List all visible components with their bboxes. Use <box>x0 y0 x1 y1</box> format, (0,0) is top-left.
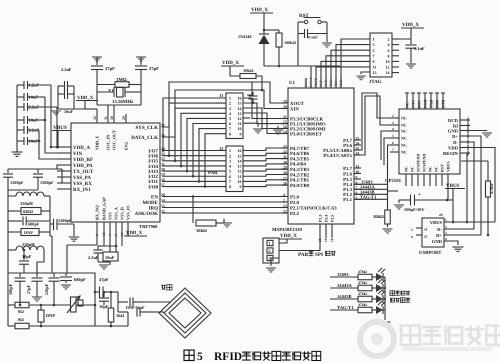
svg-text:VDD_A: VDD_A <box>73 145 90 151</box>
svg-text:10kΩ: 10kΩ <box>373 214 384 219</box>
svg-text:820Ω: 820Ω <box>23 209 33 214</box>
ground (JTAG cap) <box>406 64 416 68</box>
wire VDD to VBUS rail <box>470 148 495 223</box>
svg-text:1200pF: 1200pF <box>58 218 72 223</box>
capacitor 10uF (bank) <box>17 119 24 121</box>
capacitor 2.2nF (bank) <box>17 106 24 108</box>
ground (RST) <box>322 43 332 47</box>
inductor 150uH <box>8 190 16 196</box>
svg-text:NC: NC <box>401 129 407 134</box>
watermark text <box>401 326 420 345</box>
wire row 305 <box>8 304 15 306</box>
wire JTAG staircase to MCU <box>341 39 370 85</box>
svg-text:DVSS: DVSS <box>304 78 308 87</box>
ground (VSS caps) <box>97 258 99 262</box>
svg-text:TDO: TDO <box>339 79 343 87</box>
CP2101 left pins NC <box>390 117 399 119</box>
capacitor 10uF (VSS, box) <box>103 252 118 261</box>
wire D+ to USB <box>444 136 481 235</box>
svg-text:RST: RST <box>439 164 444 172</box>
resistor 1k (antenna) <box>110 292 112 308</box>
connector USBPORT <box>422 218 444 247</box>
capacitor 27pF (filter) <box>36 273 38 277</box>
wire LED 14443A cathode <box>383 287 385 289</box>
net label TAG-T1 (MSP) <box>354 198 388 200</box>
watermark logo circle <box>360 322 394 356</box>
svg-text:10uF: 10uF <box>64 109 74 114</box>
svg-text:13: 13 <box>373 70 377 75</box>
capacitor 1500pF A <box>7 169 9 173</box>
svg-text:JTAG: JTAG <box>369 79 382 85</box>
capacitor 0.1uF (RST) <box>298 33 305 35</box>
svg-text:19: 19 <box>324 238 328 242</box>
svg-text:DTR: DTR <box>441 99 446 108</box>
svg-text:10kΩ: 10kΩ <box>243 68 254 73</box>
svg-text:NC: NC <box>405 102 410 108</box>
capacitor 1.2uF (bank) <box>17 84 24 86</box>
svg-text:29: 29 <box>122 116 126 120</box>
svg-text:7: 7 <box>373 53 375 58</box>
svg-text:11: 11 <box>373 65 377 70</box>
svg-text:P4.7/TB7: P4.7/TB7 <box>290 146 310 152</box>
wire routing corner A <box>247 82 252 95</box>
resistor 470 (TAG-T1) <box>358 307 372 313</box>
svg-text:P1.0: P1.0 <box>290 194 300 200</box>
wire LED common cathode rail <box>384 277 386 318</box>
svg-text:14443A: 14443A <box>337 283 352 288</box>
svg-text:XIN: XIN <box>290 106 299 112</box>
svg-text:s1: s1 <box>424 228 427 232</box>
svg-text:TAG-T1: TAG-T1 <box>360 195 377 200</box>
svg-text:6: 6 <box>392 141 394 145</box>
svg-text:32: 32 <box>93 116 97 120</box>
ground (USBPORT) <box>453 247 464 251</box>
wire VBUS to VDD_A <box>57 131 59 148</box>
wire UART TXD to MSP430 <box>354 96 390 155</box>
svg-text:NC: NC <box>401 136 407 141</box>
svg-text:I/O4: I/O4 <box>148 164 158 170</box>
wire UART RXD to MSP430 <box>354 93 390 150</box>
svg-text:P4.3/TB3: P4.3/TB3 <box>290 167 310 173</box>
capacitor 27pF B <box>140 57 142 65</box>
svg-text:26: 26 <box>439 213 443 217</box>
wire trimmer to 47pF node <box>76 304 95 306</box>
svg-text:0.1uF: 0.1uF <box>308 35 318 40</box>
resistor 10k EN pulldown <box>192 197 194 224</box>
svg-text:RST: RST <box>319 80 323 87</box>
svg-text:XOUT: XOUT <box>290 101 305 107</box>
capacitor 2.2uF (bank) <box>17 129 24 131</box>
svg-text:27pF: 27pF <box>149 66 159 71</box>
wire 27pF A rail <box>96 70 98 106</box>
svg-text:VDD_X: VDD_X <box>402 22 419 28</box>
resistor 0ohm B <box>15 323 29 329</box>
svg-text:5: 5 <box>373 48 375 53</box>
CP2101 bottom pins <box>405 174 407 186</box>
capacitor 1200pF <box>50 223 53 225</box>
svg-text:I/O7: I/O7 <box>148 148 158 154</box>
svg-text:2: 2 <box>269 248 271 253</box>
figure caption <box>184 350 194 360</box>
svg-text:27pF: 27pF <box>26 284 31 294</box>
svg-text:2.2uF: 2.2uF <box>88 255 99 260</box>
svg-text:1kΩ: 1kΩ <box>116 313 125 318</box>
svg-text:5: 5 <box>197 351 203 363</box>
svg-text:MSP430F2330: MSP430F2330 <box>272 227 302 233</box>
wire VSS pins to bypass caps <box>104 232 116 246</box>
svg-text:470Ω: 470Ω <box>358 270 367 274</box>
svg-text:VBUS: VBUS <box>430 220 443 225</box>
svg-text:1: 1 <box>269 241 271 246</box>
ground (100uF) <box>398 200 400 203</box>
svg-text:VSS_IO: VSS_IO <box>126 205 131 220</box>
svg-text:DSR: DSR <box>435 100 440 108</box>
wire EN row <box>162 196 288 198</box>
svg-text:P3.4/UCA0Tx: P3.4/UCA0Tx <box>323 153 352 159</box>
svg-text:680pF: 680pF <box>74 277 86 282</box>
svg-text:2: 2 <box>445 225 447 229</box>
svg-text:4.7kΩ: 4.7kΩ <box>489 183 494 194</box>
wire DATA_CLK routed over J1 <box>162 90 288 137</box>
svg-text:P4.5/TB5: P4.5/TB5 <box>290 156 310 162</box>
svg-text:0.1uF: 0.1uF <box>414 46 425 51</box>
svg-text:47pF: 47pF <box>99 277 109 282</box>
svg-text:GND: GND <box>448 128 459 133</box>
svg-text:VDD_PA: VDD_PA <box>73 163 93 169</box>
svg-text:MODE: MODE <box>142 200 158 206</box>
wire JTAG pin 4 stub <box>392 44 399 46</box>
svg-text:USBPORT: USBPORT <box>419 250 442 256</box>
svg-text:I/O1: I/O1 <box>148 179 158 185</box>
wire CP2101 left pin to net bus <box>381 131 390 160</box>
wire routing corner B <box>255 69 257 71</box>
svg-text:100pF: 100pF <box>8 283 13 295</box>
svg-text:1N4148: 1N4148 <box>238 34 252 39</box>
resistor 470 (14443A) <box>358 285 372 291</box>
svg-text:TXD: TXD <box>429 99 434 108</box>
svg-text:8: 8 <box>229 131 231 136</box>
svg-text:P1.5: P1.5 <box>343 177 353 183</box>
IC TRF7960 RFID analog front end <box>71 123 160 222</box>
wire 1500pF bottom join <box>8 189 38 191</box>
net label 14443B (LED) <box>330 298 358 300</box>
svg-text:TDI: TDI <box>334 80 338 87</box>
svg-text:5: 5 <box>392 134 394 138</box>
svg-text:VSS_A: VSS_A <box>114 207 119 220</box>
svg-text:4: 4 <box>392 127 394 131</box>
svg-text:CTS: CTS <box>411 99 416 108</box>
svg-text:P2.0: P2.0 <box>290 200 300 206</box>
svg-text:470Ω: 470Ω <box>358 292 367 296</box>
resistor 4.7k (VBUS) <box>487 161 489 181</box>
wire I/O4 row to J2 <box>162 165 226 167</box>
svg-text:DCD: DCD <box>448 118 459 123</box>
svg-text:VDD_X: VDD_X <box>222 60 239 66</box>
svg-text:TRF7960: TRF7960 <box>139 224 158 229</box>
svg-text:VDD_X: VDD_X <box>251 7 268 13</box>
resistor 10k (net pull) <box>385 210 391 224</box>
wire verticals into bottom filter <box>7 272 9 274</box>
svg-text:31: 31 <box>104 116 108 120</box>
svg-text:NC: NC <box>401 123 407 128</box>
svg-text:P3.3/UCB0CLK: P3.3/UCB0CLK <box>290 116 323 122</box>
capacitor 10uF (bank) <box>17 96 24 98</box>
wire JTAG pin13 to ground <box>361 72 370 74</box>
wire VBUS label stem <box>452 188 454 200</box>
wire TX_OUT to matching network <box>57 165 62 169</box>
wire I/O7 row to J2 <box>162 150 226 152</box>
left decoupling capacitor bank rail <box>16 85 18 152</box>
ground (27pF filter) <box>32 297 42 301</box>
svg-text:TAG-T1: TAG-T1 <box>337 305 354 310</box>
svg-text:P1.7: P1.7 <box>343 166 353 172</box>
svg-text:+: + <box>418 193 421 198</box>
wire antenna feed lines <box>117 292 119 312</box>
svg-text:RX_IN1: RX_IN1 <box>73 187 91 193</box>
wire bottom filter top bus <box>8 272 95 274</box>
watermark subtext <box>402 347 492 351</box>
wire MODE row <box>162 201 288 203</box>
svg-text:10kΩ: 10kΩ <box>196 228 207 233</box>
svg-text:18: 18 <box>330 238 334 242</box>
wire VSS_IO to VDD_X <box>127 231 129 233</box>
svg-text:VDD_RF: VDD_RF <box>73 157 93 163</box>
svg-text:9: 9 <box>373 59 375 64</box>
wire LED TAG-T1 cathode <box>383 309 385 311</box>
svg-text:P3.0/UCB0SET: P3.0/UCB0SET <box>290 131 323 137</box>
capacitor 10uF (top) <box>58 93 65 95</box>
svg-text:14443B: 14443B <box>337 294 352 299</box>
header JTAG (2x7) <box>370 33 392 77</box>
wire SEL pin1 to VDD_X <box>279 239 287 243</box>
wire right rail (analog) <box>49 196 51 236</box>
svg-text:5: 5 <box>411 228 413 232</box>
svg-text:6: 6 <box>411 235 413 239</box>
svg-text:2: 2 <box>388 37 390 42</box>
LED 14443B <box>376 295 383 303</box>
wire right rail x95 <box>94 283 96 326</box>
ground (27pF cap A) <box>92 57 102 61</box>
wire RST bus <box>264 65 340 67</box>
net label 14443A (LED) <box>330 287 358 289</box>
svg-text:220pF: 220pF <box>44 283 49 295</box>
wire JTAG pin 14 stub <box>392 72 399 74</box>
svg-text:DNP: DNP <box>24 230 33 235</box>
svg-text:2: 2 <box>392 114 394 118</box>
svg-text:PAR: PAR <box>208 170 218 176</box>
capacitor 220pF (filter) <box>53 273 55 277</box>
svg-text:RFID: RFID <box>214 351 242 363</box>
svg-text:SUSPEND: SUSPEND <box>421 154 426 172</box>
svg-text:P2.4: P2.4 <box>323 215 328 222</box>
svg-text:GND: GND <box>432 239 443 244</box>
svg-text:P4.1/TB1: P4.1/TB1 <box>290 178 310 184</box>
svg-text:VDD: VDD <box>448 145 459 150</box>
svg-text:100kΩ: 100kΩ <box>284 40 297 45</box>
wire J1 right pins to MSP430 P3.x <box>243 98 288 119</box>
ground (JTAG pin13) <box>356 76 365 80</box>
svg-text:TX_OUT: TX_OUT <box>73 169 94 175</box>
svg-text:100μF/16V: 100μF/16V <box>404 207 425 212</box>
svg-text:EN: EN <box>151 194 158 200</box>
wire VDD_X stem (J1 pullup) <box>230 66 240 76</box>
svg-text:ASK/OOK: ASK/OOK <box>135 211 158 217</box>
svg-text:1: 1 <box>373 37 375 42</box>
svg-text:4: 4 <box>388 42 390 47</box>
svg-text:10: 10 <box>386 59 390 64</box>
wire J1 pin 12 stub <box>243 117 250 119</box>
svg-text:P1.6: P1.6 <box>343 171 353 177</box>
net label 14443B (MSP) <box>354 193 388 195</box>
svg-text:VBUS: VBUS <box>445 161 450 172</box>
wire J1 pin 13 to ground <box>243 123 258 127</box>
svg-text:0Ω: 0Ω <box>18 317 24 322</box>
svg-text:I/O6: I/O6 <box>148 153 158 159</box>
svg-text:NC: NC <box>403 166 408 172</box>
svg-text:30: 30 <box>110 116 114 120</box>
svg-text:OSC_OUT: OSC_OUT <box>112 130 117 150</box>
wire REGIN down <box>467 153 470 222</box>
svg-text:TMS: TMS <box>329 80 333 87</box>
svg-text:VDD_X: VDD_X <box>280 233 297 239</box>
wire RST button left <box>298 21 304 23</box>
svg-text:P2.3: P2.3 <box>317 215 322 222</box>
resistor 820ohm <box>8 210 21 212</box>
svg-text:470Ω: 470Ω <box>358 281 367 285</box>
svg-text:I/O0: I/O0 <box>148 184 158 190</box>
wire bus to OSC_OUT <box>113 105 115 123</box>
header SEL (PAR/SPI select) <box>263 238 279 263</box>
wire RST bus to MCU <box>310 66 312 78</box>
svg-text:SUSPEND: SUSPEND <box>415 154 420 172</box>
wire net bus down to 10k <box>388 190 399 192</box>
svg-text:680pF: 680pF <box>28 222 40 227</box>
wires cap bank to TRF7960 supply pins <box>34 84 51 86</box>
svg-text:TEST: TEST <box>314 78 318 87</box>
svg-text:1: 1 <box>445 218 447 222</box>
ground (CP2101) <box>486 130 488 133</box>
capacitor 27pF A <box>96 57 98 65</box>
svg-text:4: 4 <box>445 237 447 241</box>
wire crystal bottom bus <box>97 104 141 106</box>
resistor DNP (shunt) <box>8 231 21 233</box>
svg-text:SPI: SPI <box>315 252 323 258</box>
svg-text:BAND_GAP: BAND_GAP <box>102 197 107 220</box>
svg-text:8: 8 <box>388 53 390 58</box>
wire JTAG pin 12 stub <box>392 66 399 68</box>
ground (SEL) <box>266 268 276 272</box>
svg-text:VSS_PA: VSS_PA <box>73 175 91 181</box>
wire EN2 stub <box>125 114 127 123</box>
svg-text:RST: RST <box>299 13 309 19</box>
net label 14443A (MSP) <box>354 188 388 190</box>
wire CP2101 GND to ground <box>470 130 487 132</box>
wire JTAG pin2 to VDD_X <box>392 38 411 40</box>
capacitor 0.1uF (JTAG) <box>406 44 417 46</box>
antenna label 天线 <box>161 285 166 290</box>
svg-text:15693: 15693 <box>337 272 349 277</box>
wire JTAG pin 6 stub <box>392 49 399 51</box>
wire top bus of 1500pF caps <box>8 168 62 170</box>
svg-text:P2.2: P2.2 <box>290 211 300 217</box>
wire RST button right <box>321 21 327 23</box>
wire left rail (analog) <box>7 196 9 326</box>
wire RX_IN1 down <box>61 169 63 183</box>
wire JTAG pin 8 stub <box>392 55 399 57</box>
svg-text:RXD: RXD <box>423 99 428 108</box>
wire I/O2 row to J2 <box>162 175 226 177</box>
svg-text:D-: D- <box>453 140 458 145</box>
ground (10k net pull) <box>383 229 393 233</box>
svg-text:DATA_CLK: DATA_CLK <box>131 135 158 141</box>
wire LED 14443B cathode <box>383 298 385 300</box>
svg-text:NC: NC <box>409 166 414 172</box>
wire cap rails (top) <box>57 86 59 109</box>
wire D- to USB <box>444 142 474 229</box>
resistor 0ohm A <box>15 302 29 308</box>
IC CP2101 USB-UART bridge <box>399 109 460 174</box>
net label 15693 (MSP) <box>354 183 388 185</box>
label LED indicators <box>390 291 395 296</box>
net label 15693 (LED) <box>330 276 358 278</box>
capacitor 680pF (filter) <box>65 273 67 276</box>
wire VDD_X down <box>263 13 265 30</box>
svg-text:3: 3 <box>392 121 394 125</box>
wire IRQ row <box>162 207 288 209</box>
ground (top caps) <box>51 111 60 115</box>
capacitor 56pF (antenna) <box>136 308 138 317</box>
svg-text:D+: D+ <box>436 233 442 238</box>
svg-text:P4.0/TB0: P4.0/TB0 <box>290 183 310 189</box>
wire I/O0 row to J2 <box>162 186 226 188</box>
svg-text:J1: J1 <box>219 93 223 98</box>
capacitor (XOUT load) <box>249 95 258 97</box>
svg-text:I/O5: I/O5 <box>148 159 158 165</box>
svg-text:I/O2: I/O2 <box>148 174 158 180</box>
trimmer capacitor <box>71 297 77 312</box>
svg-text:P4.4/B4: P4.4/B4 <box>290 162 306 168</box>
svg-text:DNP 56pF: DNP 56pF <box>126 305 145 310</box>
resistor 100k <box>278 30 280 33</box>
svg-text:12: 12 <box>386 65 390 70</box>
svg-text:27pF: 27pF <box>105 66 115 71</box>
svg-text:NC: NC <box>427 166 432 172</box>
wire bus to OSC_IN <box>107 105 109 123</box>
wire CP2101 VBUS pin to cap rail <box>447 186 449 200</box>
svg-text:1500pF: 1500pF <box>40 180 54 185</box>
wire I/O1 row to J2 <box>162 180 226 182</box>
svg-text:RTS: RTS <box>417 100 422 108</box>
svg-text:VSS: VSS <box>108 212 113 220</box>
svg-text:13.56MHz: 13.56MHz <box>112 99 134 105</box>
wire JTAG pin 10 stub <box>392 60 399 62</box>
svg-text:NC: NC <box>401 143 407 148</box>
wire USB GND to ground <box>448 241 458 245</box>
resistor 470 (15693) <box>358 274 372 280</box>
svg-text:7: 7 <box>392 148 394 152</box>
LED TAG-T1 <box>376 306 383 314</box>
svg-text:DVCC: DVCC <box>309 76 313 87</box>
svg-text:NC: NC <box>433 166 438 172</box>
wire LED 15693 cathode <box>383 276 385 278</box>
svg-text:RX_IN2: RX_IN2 <box>95 205 100 220</box>
svg-text:OSC_IN: OSC_IN <box>106 135 111 150</box>
svg-text:9: 9 <box>240 184 242 189</box>
wire SEL pin3 to ground <box>271 258 279 266</box>
svg-text:IRQ: IRQ <box>149 205 159 211</box>
svg-text:14: 14 <box>386 70 390 75</box>
svg-text:2.2nF: 2.2nF <box>61 67 72 72</box>
